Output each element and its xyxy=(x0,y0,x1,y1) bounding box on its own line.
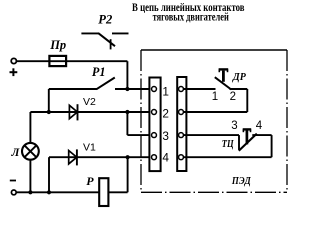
svg-text:ПЭД: ПЭД xyxy=(231,176,252,187)
svg-text:1: 1 xyxy=(162,84,169,98)
junction dot: V1 riser on rail xyxy=(47,190,51,194)
minus terminal xyxy=(10,181,16,195)
svg-text:Р2: Р2 xyxy=(98,13,113,27)
svg-text:V1: V1 xyxy=(83,141,96,153)
wire: coil output to riser xyxy=(109,191,128,193)
pressure contact ДР xyxy=(212,69,248,103)
dash-dot enclosure frame (ПЭД boundary) xyxy=(141,50,287,192)
junction dot: P1 vertical on V2 row xyxy=(47,110,51,114)
wire: ТЦ right side down xyxy=(271,135,273,157)
wire: row1 from socket to ДР contact xyxy=(183,88,215,90)
contact P2 xyxy=(81,13,128,50)
svg-text:ТЦ: ТЦ xyxy=(222,138,234,150)
wire: lamp branch vertical (V2 row down to lamp) xyxy=(29,112,31,143)
diode V2 xyxy=(69,96,96,120)
fuse Пр xyxy=(49,38,66,66)
svg-text:Л: Л xyxy=(11,147,21,159)
lamp Л xyxy=(11,143,39,160)
svg-text:Р: Р xyxy=(86,174,94,188)
svg-text:1: 1 xyxy=(212,91,218,103)
plus terminal xyxy=(10,58,18,76)
pressure contact ТЦ xyxy=(222,120,272,151)
svg-text:Пр: Пр xyxy=(49,38,66,52)
svg-text:4: 4 xyxy=(162,151,169,165)
junction dot: V2 row / link vertical xyxy=(125,110,129,114)
wire: row 3 to connector pin 3 xyxy=(127,134,151,136)
junction dot: P1 output / main vertical xyxy=(125,87,129,91)
junction dot: lamp on rail xyxy=(28,190,32,194)
wire: row3 from socket to ТЦ contact xyxy=(183,134,239,136)
svg-text:Р1: Р1 xyxy=(92,65,106,79)
wire: ДР return to socket row 2 xyxy=(183,111,247,113)
wire: P1 branch vertical from P1 left lead down to V2 row xyxy=(48,89,50,112)
connector right half (socket) xyxy=(177,77,186,171)
svg-text:4: 4 xyxy=(256,120,263,132)
contact P1 xyxy=(49,65,152,90)
wire: ДР right side down xyxy=(246,89,248,112)
svg-text:2: 2 xyxy=(230,91,236,103)
svg-text:V2: V2 xyxy=(83,96,96,108)
relay coil Р xyxy=(86,174,108,206)
wire: minus rail to coil xyxy=(16,191,99,193)
svg-text:3: 3 xyxy=(231,120,237,132)
connector left half (plug) xyxy=(149,78,160,172)
svg-text:3: 3 xyxy=(162,129,169,143)
wire: V1 riser from rail up to V1 row xyxy=(48,157,50,192)
wire: V2 row xyxy=(30,111,151,113)
wire: lamp bottom lead xyxy=(29,160,31,193)
wire: link vertical V2 row to row 3 xyxy=(126,112,128,135)
junction dot: coil riser on V1 row xyxy=(126,155,130,159)
wire: coil riser up to V1 row xyxy=(127,157,129,192)
diode V1 xyxy=(69,141,96,165)
wire: main vertical (P2 lead down through fuse node to P1 node) xyxy=(126,61,128,89)
svg-text:ДР: ДР xyxy=(232,71,246,83)
svg-text:тяговых двигателей: тяговых двигателей xyxy=(153,11,230,23)
wire: plus terminal through fuse to main vertical xyxy=(16,60,127,62)
wire: ТЦ return to socket row 4 xyxy=(183,156,271,158)
svg-text:2: 2 xyxy=(162,106,169,120)
wire: V1 row xyxy=(49,156,152,158)
